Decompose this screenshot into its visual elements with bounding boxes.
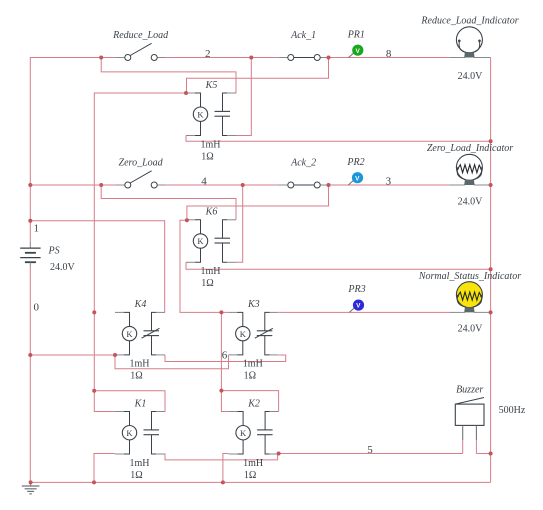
svg-text:1mH: 1mH — [130, 359, 150, 370]
svg-text:PR2: PR2 — [346, 157, 364, 168]
svg-text:V: V — [356, 303, 361, 310]
svg-text:1mH: 1mH — [201, 139, 221, 150]
svg-text:K2: K2 — [247, 398, 260, 409]
svg-text:K6: K6 — [205, 207, 218, 218]
svg-text:Zero_Load_Indicator: Zero_Load_Indicator — [427, 143, 513, 154]
svg-text:1mH: 1mH — [201, 266, 221, 277]
svg-text:1Ω: 1Ω — [244, 470, 256, 481]
svg-text:1Ω: 1Ω — [130, 371, 142, 382]
svg-text:1: 1 — [33, 223, 39, 235]
svg-text:Ack_2: Ack_2 — [290, 158, 316, 169]
svg-text:4: 4 — [201, 176, 207, 188]
svg-text:1Ω: 1Ω — [201, 278, 213, 289]
svg-text:1Ω: 1Ω — [244, 371, 256, 382]
svg-text:V: V — [355, 175, 360, 182]
svg-text:Reduce_Load_Indicator: Reduce_Load_Indicator — [420, 16, 518, 27]
svg-text:Ack_1: Ack_1 — [290, 30, 316, 41]
svg-text:Buzzer: Buzzer — [456, 384, 483, 395]
svg-text:8: 8 — [386, 48, 392, 60]
svg-text:0: 0 — [33, 302, 39, 314]
svg-text:PS: PS — [48, 245, 60, 256]
svg-text:24.0V: 24.0V — [458, 324, 484, 335]
svg-text:24.0V: 24.0V — [458, 197, 484, 208]
svg-text:1Ω: 1Ω — [130, 470, 142, 481]
svg-text:500Hz: 500Hz — [499, 405, 526, 416]
svg-text:K: K — [240, 428, 247, 438]
svg-text:24.0V: 24.0V — [458, 71, 484, 82]
svg-text:K3: K3 — [247, 299, 260, 310]
svg-text:K: K — [197, 109, 204, 119]
svg-text:Normal_Status_Indicator: Normal_Status_Indicator — [418, 271, 521, 282]
svg-text:Zero_Load: Zero_Load — [119, 158, 164, 169]
svg-text:PR3: PR3 — [347, 284, 365, 295]
svg-text:K1: K1 — [134, 398, 147, 409]
svg-text:1mH: 1mH — [243, 458, 263, 469]
svg-text:3: 3 — [386, 176, 392, 188]
svg-text:1mH: 1mH — [130, 458, 150, 469]
svg-text:2: 2 — [205, 48, 211, 60]
svg-text:K5: K5 — [205, 80, 218, 91]
svg-text:1Ω: 1Ω — [201, 151, 213, 162]
svg-text:24.0V: 24.0V — [50, 262, 76, 273]
svg-text:K: K — [126, 428, 133, 438]
svg-text:K: K — [240, 329, 247, 339]
svg-text:K4: K4 — [134, 299, 147, 310]
svg-text:5: 5 — [367, 444, 373, 456]
svg-text:Reduce_Load: Reduce_Load — [112, 30, 169, 41]
svg-text:V: V — [355, 48, 360, 55]
svg-text:1mH: 1mH — [243, 359, 263, 370]
svg-text:K: K — [197, 236, 204, 246]
svg-text:PR1: PR1 — [347, 29, 365, 40]
svg-text:6: 6 — [222, 349, 228, 361]
svg-text:K: K — [126, 329, 133, 339]
